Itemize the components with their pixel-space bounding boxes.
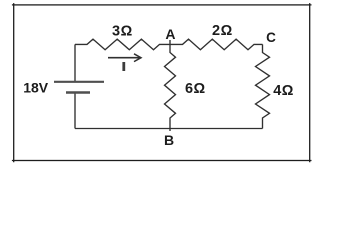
svg-text:C: C bbox=[266, 30, 276, 45]
svg-text:6Ω: 6Ω bbox=[185, 81, 206, 97]
svg-text:B: B bbox=[164, 132, 174, 148]
svg-text:A: A bbox=[165, 26, 175, 42]
svg-text:3Ω: 3Ω bbox=[112, 24, 133, 40]
svg-text:2Ω: 2Ω bbox=[212, 23, 233, 39]
svg-text:18V: 18V bbox=[23, 79, 49, 95]
svg-text:4Ω: 4Ω bbox=[273, 83, 294, 99]
